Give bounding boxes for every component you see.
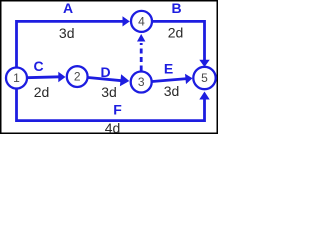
svg-text:2d: 2d — [168, 25, 184, 41]
svg-text:2d: 2d — [34, 84, 50, 100]
svg-text:3d: 3d — [101, 84, 117, 100]
svg-text:F: F — [113, 102, 122, 118]
svg-text:3: 3 — [138, 75, 145, 89]
svg-text:2: 2 — [74, 70, 81, 84]
svg-text:B: B — [171, 0, 181, 16]
svg-text:C: C — [33, 58, 43, 74]
svg-text:E: E — [164, 61, 173, 77]
svg-text:3d: 3d — [164, 83, 180, 99]
svg-text:3d: 3d — [59, 25, 75, 41]
svg-text:5: 5 — [201, 71, 208, 85]
svg-text:4: 4 — [138, 14, 145, 28]
svg-text:1: 1 — [13, 71, 20, 85]
svg-text:A: A — [63, 0, 73, 16]
svg-text:4d: 4d — [105, 120, 121, 135]
svg-text:D: D — [100, 64, 110, 80]
